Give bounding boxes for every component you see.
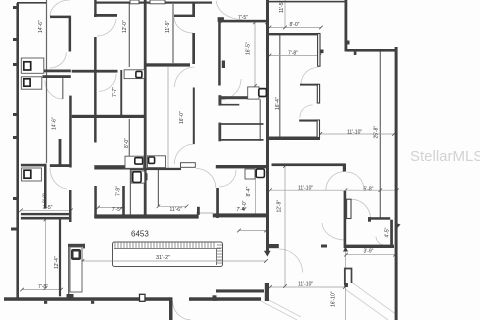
svg-text:12'-0": 12'-0" — [122, 20, 128, 33]
svg-text:7'-7": 7'-7" — [112, 87, 118, 97]
svg-text:16'-10": 16'-10" — [330, 291, 336, 307]
svg-text:5'-8": 5'-8" — [364, 187, 374, 193]
svg-text:8'-0": 8'-0" — [290, 22, 300, 28]
svg-text:12'-4": 12'-4" — [54, 256, 60, 269]
svg-text:11'-10": 11'-10" — [298, 185, 313, 191]
svg-text:14'-6": 14'-6" — [38, 20, 44, 33]
svg-text:16'-4": 16'-4" — [275, 97, 281, 110]
svg-text:16'-5": 16'-5" — [246, 42, 252, 55]
svg-text:7'-5": 7'-5" — [112, 207, 122, 213]
svg-text:11'-10": 11'-10" — [298, 282, 313, 288]
svg-text:11'-5": 11'-5" — [279, 0, 285, 13]
svg-text:31'-2": 31'-2" — [156, 255, 170, 261]
svg-text:StellarMLS: StellarMLS — [410, 148, 480, 165]
svg-text:14'-6": 14'-6" — [52, 117, 58, 130]
svg-text:11'-6": 11'-6" — [170, 207, 183, 213]
svg-text:4'-5": 4'-5" — [385, 227, 391, 237]
svg-text:11'-9": 11'-9" — [165, 20, 171, 33]
svg-text:7'-5": 7'-5" — [238, 15, 248, 21]
svg-text:16'-0": 16'-0" — [179, 111, 185, 124]
svg-text:11'-10": 11'-10" — [347, 129, 362, 135]
svg-text:8'-0": 8'-0" — [124, 138, 130, 148]
svg-text:7'-8": 7'-8" — [288, 50, 298, 56]
svg-text:7'-9": 7'-9" — [116, 186, 122, 196]
svg-text:3'-9": 3'-9" — [364, 249, 374, 255]
svg-text:6453: 6453 — [131, 230, 149, 239]
svg-text:7'-8": 7'-8" — [38, 284, 48, 290]
svg-text:7'-5": 7'-5" — [43, 205, 53, 211]
svg-text:25'-8": 25'-8" — [373, 126, 379, 139]
svg-text:4'-0": 4'-0" — [242, 200, 248, 210]
svg-text:12'-9": 12'-9" — [277, 200, 283, 213]
svg-text:8'-0": 8'-0" — [43, 193, 49, 203]
svg-text:8'-4": 8'-4" — [246, 186, 252, 196]
